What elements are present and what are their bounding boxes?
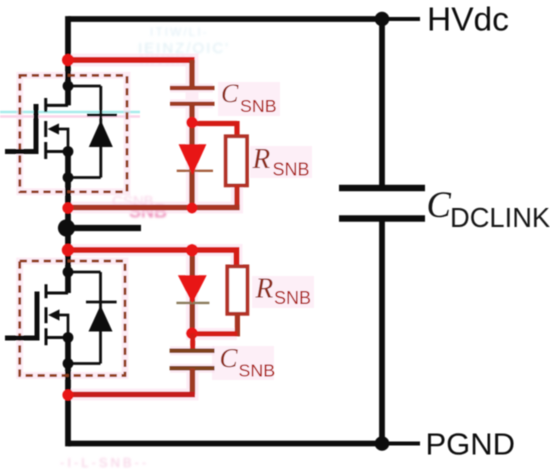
label CSNB lower (220, 343, 276, 381)
label RSNB lower (255, 273, 312, 309)
label CDCLINK (427, 184, 550, 233)
ghost artifact cyan line in Q1 box (0, 111, 140, 113)
node rail red lower-mid (62, 244, 74, 256)
Q2 body arrow (48, 309, 59, 320)
svg-text:-I-L-SNB--: -I-L-SNB-- (60, 455, 149, 469)
svg-text:SNB: SNB (240, 96, 277, 116)
ghost label halo lower CSNB (212, 346, 274, 380)
wire: lower resistor to node (190, 331, 238, 336)
Q2 drain contact (46, 292, 68, 295)
wire: right DC-link rail upper (379, 19, 385, 188)
node rail red upper-mid (62, 202, 73, 213)
resistor RSNB lower (227, 266, 247, 313)
node Q2 diode return (63, 358, 74, 369)
svg-text:DCLINK: DCLINK (450, 202, 550, 233)
wire: lower snubber diode branch (dark red) (190, 250, 195, 333)
node lower snubber mid (186, 328, 198, 340)
Q1 body arrow (48, 123, 59, 134)
svg-text:C: C (427, 184, 452, 225)
Q1 source contact (46, 150, 68, 153)
Q1 gate lead (5, 149, 36, 154)
wire: PGND stub (382, 442, 420, 446)
wire: upper resistor top lead (234, 121, 239, 138)
node lower snubber top (186, 244, 198, 256)
svg-text:R: R (255, 273, 274, 305)
diode DSNB lower cathode bar (176, 302, 209, 304)
transistor Q2 (5, 284, 69, 345)
wire: left rail bottom segment (65, 338, 71, 447)
node Q2 source (63, 332, 74, 343)
wire: upper snubber diode branch (dark red) (189, 123, 194, 208)
node rail red top (62, 54, 74, 66)
wire: lower resistor bottom lead (235, 314, 240, 337)
wire: lower snubber top rail (red) (68, 250, 237, 266)
node Q2 drain (63, 267, 74, 278)
diode D2 (Q2 body diode) (68, 272, 117, 364)
wire: top HVdc bus (68, 16, 382, 22)
wire: lower node to cap (red) (190, 333, 195, 351)
transistor Q1 (5, 98, 69, 159)
svg-text:C: C (221, 79, 239, 108)
label RSNB upper (252, 143, 310, 180)
wire: lower cap to bottom rail (dark red) (190, 368, 195, 394)
wire: upper snubber top rail (red) (68, 57, 195, 63)
wire: HVdc stub (382, 17, 420, 21)
node HVdc junction (375, 12, 390, 27)
svg-text:C: C (220, 343, 239, 373)
node Q1 drain (63, 81, 74, 92)
pink halo around red wires (20, 60, 237, 395)
node upper snubber mid (186, 117, 197, 128)
node Q1 diode return (63, 172, 74, 183)
Q2 channel segments (45, 284, 48, 345)
transistor Q2 dashed boundary (20, 261, 125, 376)
ghost text CSNB mid (112, 193, 167, 222)
svg-text:R: R (252, 143, 271, 175)
capacitor CSNB upper (170, 88, 215, 104)
Q1 channel segments (44, 98, 47, 159)
wire: switch-node stub (66, 225, 141, 231)
node upper snubber bottom (187, 203, 198, 214)
ghost label halo upper CSNB (218, 82, 280, 116)
wire: right DC-link rail lower (379, 219, 385, 444)
svg-text:SNB: SNB (239, 361, 276, 381)
Q2 gate lead (5, 336, 37, 341)
ghost label halo upper RSNB (250, 146, 312, 178)
Q2 gate bar (35, 292, 40, 341)
svg-text:SNB: SNB (273, 160, 310, 180)
wire: upper snubber cap feed (dark red) (189, 60, 194, 88)
svg-text:SNB: SNB (274, 288, 311, 308)
wire: left rail top segment (65, 16, 71, 105)
svg-text:ITIW/LI-: ITIW/LI- (150, 25, 209, 39)
wire: upper cap to node (dark red) (189, 104, 194, 124)
wire: upper resistor bottom lead (234, 185, 239, 210)
label CSNB upper (221, 79, 277, 116)
node PGND junction (375, 436, 390, 451)
node switch-node dot (58, 219, 75, 236)
svg-text:PGND: PGND (426, 427, 516, 462)
wire: upper node to resistor (red) (192, 121, 237, 126)
wire: left rail middle segment (65, 152, 71, 294)
diode DSNB upper cathode bar (177, 170, 213, 172)
resistor RSNB upper (226, 136, 247, 185)
svg-text:HVdc: HVdc (427, 2, 509, 39)
Q1 body contact (57, 128, 70, 152)
node rail red bottom (62, 389, 73, 400)
ghost label halo lower RSNB (252, 276, 314, 308)
Q2 source contact (46, 336, 68, 339)
diode DSNB lower (178, 275, 207, 303)
wire: lower snubber bottom rail (68, 392, 195, 397)
capacitor CSNB lower (170, 351, 215, 369)
wire: upper snubber bottom rail (68, 205, 240, 211)
transistor Q1 dashed boundary (20, 75, 127, 191)
Q2 body contact (57, 314, 69, 338)
capacitor CDCLINK (339, 188, 425, 219)
wire: bottom PGND bus (68, 441, 382, 447)
ghost artifact pink line in Q1 box (0, 115, 140, 118)
Q1 gate bar (34, 104, 39, 154)
ghost artifact rows top (138, 25, 230, 67)
Q1 drain contact (46, 104, 68, 107)
diode DSNB upper (179, 144, 207, 175)
node Q1 source (63, 146, 74, 157)
diode D1 (Q1 body diode) (68, 86, 117, 178)
